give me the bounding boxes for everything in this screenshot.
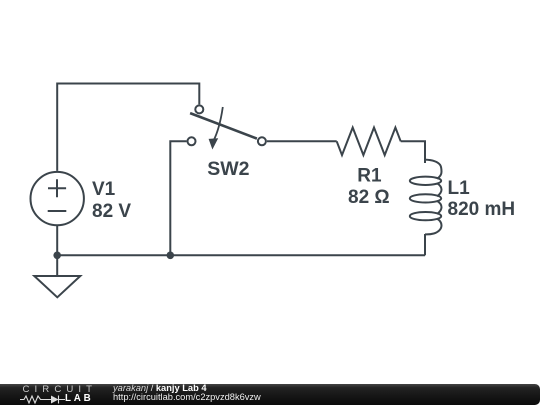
wire switch to resistor [267, 140, 337, 142]
V1 minus sign [48, 210, 67, 212]
wire V1 bottom [56, 225, 58, 255]
svg-text:L1: L1 [448, 178, 471, 199]
switch SW2 terminal left [188, 137, 196, 145]
footer bar [0, 384, 540, 405]
switch SW2 terminal right [258, 137, 266, 145]
wire switch left throw down [170, 141, 186, 255]
wire bottom horizontal [57, 254, 425, 256]
resistor R1 zigzag [337, 128, 401, 156]
wire resistor to inductor [401, 141, 425, 163]
inductor L1 coil [425, 160, 442, 179]
ground [34, 255, 80, 297]
voltage source V1 [31, 172, 84, 225]
switch arrow arc [214, 107, 223, 141]
CircuitLab logo text [23, 384, 98, 395]
footer url [113, 392, 261, 402]
wire top horizontal [57, 84, 199, 171]
switch SW2 blade [190, 113, 257, 139]
V1 plus sign [48, 179, 66, 197]
svg-text:82 Ω: 82 Ω [348, 187, 390, 208]
switch arrow head [209, 138, 219, 149]
svg-text:820 mH: 820 mH [448, 199, 516, 220]
svg-text:SW2: SW2 [207, 158, 249, 180]
CircuitLab logo doodle [20, 394, 90, 405]
junction dot left [53, 252, 61, 260]
switch SW2 terminal top [195, 105, 203, 113]
svg-text:82 V: 82 V [92, 201, 131, 222]
svg-text:V1: V1 [92, 179, 116, 200]
svg-text:R1: R1 [357, 166, 382, 187]
junction dot middle [167, 252, 175, 260]
wire inductor bottom [424, 234, 426, 255]
footer title [113, 383, 207, 393]
